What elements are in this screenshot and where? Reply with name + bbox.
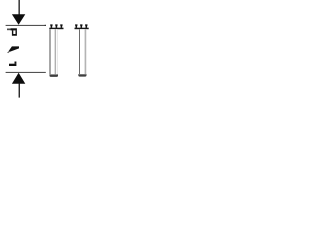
left pin foot bbox=[50, 74, 59, 77]
right pin head bar bbox=[75, 28, 89, 30]
right pin serration tab 3 bbox=[85, 24, 87, 28]
top extension line bbox=[6, 25, 46, 26]
dimension text digit 5 bbox=[7, 28, 17, 35]
left pin body bbox=[50, 29, 58, 74]
top arrowhead bbox=[12, 14, 25, 25]
right pin serration tab 2 bbox=[80, 24, 82, 28]
left pin serration tab 1 bbox=[50, 24, 52, 28]
right pin body left edge bbox=[79, 29, 80, 74]
left pin body inner shade line bbox=[55, 29, 56, 74]
dimension text digit 4 bbox=[7, 46, 19, 53]
right pin foot bbox=[78, 74, 86, 77]
right pin body inner shade line bbox=[85, 29, 86, 74]
left pin body right edge bbox=[56, 29, 59, 74]
left pin serration tab 2 bbox=[55, 24, 57, 28]
left pin serration tab 3 bbox=[60, 24, 62, 28]
left pin head bar bbox=[49, 28, 63, 30]
bottom extension line bbox=[6, 72, 46, 73]
top extension line end nub bbox=[45, 25, 46, 26]
dimension text digit 1 bbox=[9, 62, 16, 67]
right pin body bbox=[79, 29, 86, 74]
left pin body left edge bbox=[50, 29, 51, 74]
right pin serration tab 1 bbox=[75, 24, 77, 28]
bottom dimension leader stem bbox=[19, 83, 20, 98]
bottom arrowhead bbox=[12, 73, 25, 84]
top dimension leader stem bbox=[19, 0, 20, 15]
right pin body right edge bbox=[85, 29, 88, 74]
